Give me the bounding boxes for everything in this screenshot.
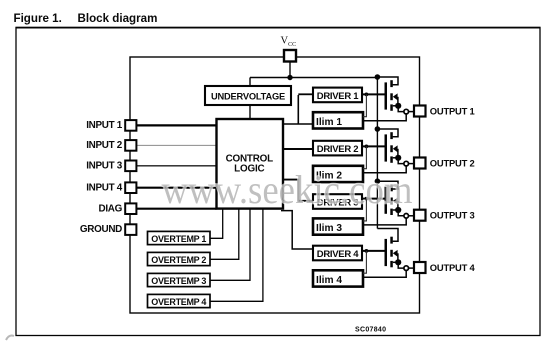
svg-text:Block diagram: Block diagram: [78, 12, 158, 25]
svg-text:INPUT 4: INPUT 4: [86, 182, 123, 193]
svg-text:GROUND: GROUND: [80, 224, 122, 235]
svg-text:Ilim 3: Ilim 3: [316, 223, 342, 234]
svg-text:OVERTEMP 2: OVERTEMP 2: [151, 255, 206, 265]
svg-text:OVERTEMP 3: OVERTEMP 3: [151, 276, 206, 286]
svg-text:DRIVER 2: DRIVER 2: [317, 144, 358, 155]
svg-text:SC07840: SC07840: [355, 327, 386, 334]
svg-text:UNDERVOLTAGE: UNDERVOLTAGE: [211, 92, 285, 102]
svg-text:INPUT 3: INPUT 3: [86, 160, 123, 171]
svg-text:OUTPUT 3: OUTPUT 3: [430, 210, 475, 221]
svg-text:www.seekic.com: www.seekic.com: [162, 168, 413, 212]
svg-text:INPUT 1: INPUT 1: [86, 120, 123, 131]
svg-text:OVERTEMP 4: OVERTEMP 4: [151, 297, 206, 307]
svg-text:Figure 1.: Figure 1.: [14, 12, 62, 25]
svg-text:OUTPUT 1: OUTPUT 1: [430, 105, 475, 116]
svg-text:OUTPUT 4: OUTPUT 4: [430, 262, 476, 273]
svg-text:Ilim 4: Ilim 4: [316, 275, 342, 286]
svg-text:DIAG: DIAG: [99, 203, 123, 214]
svg-text:OUTPUT 2: OUTPUT 2: [430, 157, 475, 168]
svg-text:DRIVER 1: DRIVER 1: [317, 91, 359, 102]
svg-text:DRIVER 4: DRIVER 4: [317, 249, 359, 260]
svg-text:Ilim 1: Ilim 1: [316, 117, 342, 128]
svg-text:OVERTEMP 1: OVERTEMP 1: [151, 234, 206, 244]
svg-text:INPUT 2: INPUT 2: [86, 140, 123, 151]
svg-text:VCC: VCC: [281, 36, 297, 48]
